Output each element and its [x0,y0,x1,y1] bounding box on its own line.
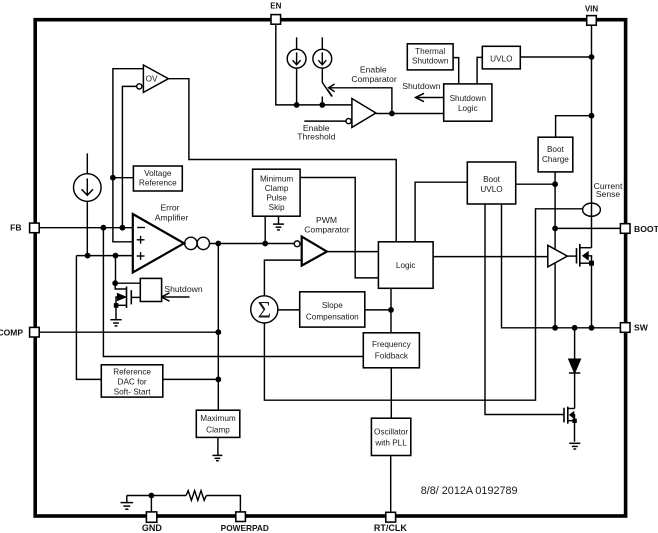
svg-text:Soft- Start: Soft- Start [114,388,152,397]
block minimum clamp pulse skip [253,169,301,216]
node SW source [589,325,595,331]
svg-text:Clamp: Clamp [265,184,289,193]
ground at GND pin node [121,503,134,510]
wire VIN rail [591,25,593,248]
svg-text:Comparator: Comparator [304,225,350,235]
wire logic output to gate driver [433,256,548,258]
wire Vref net OV top input to error amp noninverting input [113,69,143,242]
ground symbols [110,224,580,509]
diode D1 [569,359,580,373]
node EN rail I1 [294,102,300,108]
svg-text:Shutdown: Shutdown [412,56,449,65]
pin BOOT [620,224,630,234]
svg-text:Shutdown: Shutdown [450,94,487,103]
wire OV output routing to logic [168,79,396,242]
svg-text:Logic: Logic [458,104,478,113]
node error amp output [215,241,221,247]
wire COMP pin [39,331,218,333]
svg-text:BOOT: BOOT [634,224,658,234]
wire PWM comparator output to logic [327,251,379,253]
wire diode to low-side drain [574,373,576,409]
pin POWERPAD [236,512,246,522]
current source I2 [313,49,332,68]
wire sigma bottom to current sense [264,209,582,400]
wire boot UVLO down to SW rail [502,204,621,328]
wire frequency foldback to oscillator [390,368,392,418]
svg-text:Sense: Sense [596,189,621,199]
ground below low-side mosfet [569,443,580,449]
block logic [378,242,433,288]
pin FB [30,223,40,233]
wire minimum clamp to error amp output row [264,216,266,243]
svg-text:Comparator: Comparator [351,74,397,84]
switch control arrowhead [329,84,335,92]
wire BOOT node to BOOT pin [555,227,620,229]
svg-text:Amplifier: Amplifier [155,213,189,223]
pin SW [620,323,630,333]
svg-text:Reference: Reference [139,179,177,188]
wire resistor to POWERPAD [206,496,240,512]
pin EN [271,15,281,25]
svg-text:Shutdown: Shutdown [402,81,440,91]
node EN rail I2 [319,102,325,108]
wire reference DAC output to clamp node [163,378,219,380]
current sense sensor [583,203,601,216]
wire oscillator to RT/CLK pin [390,456,392,513]
wire enable comparator output to shutdown logic [376,113,444,115]
svg-text:RT/CLK: RT/CLK [374,523,407,533]
svg-text:UVLO: UVLO [490,54,512,63]
node COMP tap [215,329,221,335]
wire high-side source to SW [591,263,593,328]
node enable comparator output [389,111,395,117]
pin GND [146,512,156,522]
svg-text:COMP: COMP [0,327,23,337]
block thermal shutdown [407,44,453,70]
wire error amp output row [209,243,294,245]
wire boot charge to boot node [554,172,556,229]
wire sigma to PWM comparator lower input [264,260,301,296]
wire shutdown mosfet drain node to shutdown box [115,282,140,284]
op-amp PWM comparator [294,237,327,266]
transistor Q1 high-side mosfet [567,244,594,267]
op-amp U1 error amplifier [133,214,184,273]
wire EN pin to enable comparator rail [276,25,352,105]
resistor R1 [186,491,206,501]
wire SW to diode [574,328,576,359]
transistor Q3 shutdown mosfet [114,283,141,320]
block shutdown logic [444,84,492,121]
block UVLO [482,46,520,69]
wire VIN rail to boot charge [556,116,592,138]
svg-text:VIN: VIN [585,5,599,14]
node shutdown mosfet drain [112,280,118,286]
ground below maximum clamp box [212,455,222,460]
wire enable threshold input [304,120,346,122]
wire GND node to GND pin [150,496,152,512]
node VIN-UVLO [589,54,595,60]
wire boot UVLO down to low-side gate [485,204,564,415]
pin COMP [30,327,40,337]
wire current source I2 top stub [321,37,323,49]
svg-text:Threshold: Threshold [297,132,335,142]
svg-text:Boot: Boot [483,175,501,184]
wire UVLO to VIN rail [520,56,591,58]
wire thermal shutdown to shutdown logic [453,58,459,84]
block maximum clamp [196,410,240,437]
sigma summing node [251,296,278,323]
svg-text:Logic: Logic [396,261,416,270]
svg-text:Compensation: Compensation [306,312,359,321]
svg-text:UVLO: UVLO [480,185,502,194]
error amplifier gm output circles [185,237,210,249]
node SW diode [572,325,578,331]
svg-text:GND: GND [142,523,163,533]
svg-text:DAC for: DAC for [118,378,147,387]
transistor Q2 low-side mosfet [564,407,577,424]
wire minimum clamp output to logic [300,178,378,278]
current source I3 soft-start [74,174,102,202]
node SW driver [552,325,558,331]
wire logic to frequency foldback [390,288,392,333]
wire current source I3 to soft-start node [86,201,88,255]
svg-text:Boot: Boot [547,145,565,154]
node Vref tap [110,175,116,181]
op-amp OV comparator [137,65,169,92]
svg-text:Error: Error [160,203,179,213]
node slope comp tap [388,307,394,313]
wire FB pin to error amp inverting input [39,227,133,229]
shutdown output arrow line [416,97,444,99]
wire maximum clamp ground stub [217,437,219,455]
pin RT/CLK [386,512,396,522]
svg-text:Slope: Slope [322,301,343,310]
node minimum clamp tap [262,241,268,247]
pin VIN [587,16,597,26]
block reference DAC for soft-start [101,365,163,397]
wire enable comparator output to switch control [329,88,392,114]
wire switch bottom stub [321,97,323,105]
wire FB node down to frequency foldback [103,228,363,357]
node FB-foldback [101,225,107,231]
wire COMP vertical error amp output to maximum clamp [217,244,219,411]
svg-text:Reference: Reference [113,368,151,377]
node VIN-bootcharge [589,113,595,119]
svg-text:Voltage: Voltage [144,169,172,178]
wire current source I1 to EN rail [296,68,298,105]
node soft-start I3 [85,253,91,259]
svg-text:SW: SW [634,323,649,333]
wire driver bottom to SW [554,263,556,328]
svg-text:Oscillator: Oscillator [374,428,408,437]
svg-text:Σ: Σ [258,298,271,323]
block frequency foldback [363,333,419,368]
svg-text:Enable: Enable [360,64,387,74]
shutdown signal wire to shutdown box near error amp [161,296,190,298]
op-amp gate driver [548,245,568,267]
wire low-side source to ground [574,421,576,442]
wire boot rail to driver top [554,228,556,249]
switch S1 blade tick [327,89,332,96]
wire current source I1 top stub [296,37,298,49]
svg-text:Minimum: Minimum [260,174,293,183]
svg-text:Charge: Charge [542,155,569,164]
wire UVLO to shutdown logic [477,57,482,84]
switch S1 blade [322,83,331,97]
block shutdown latch box [140,278,161,301]
wire current source I3 top stub [86,153,88,173]
node BOOT rail [552,226,558,232]
wire boot UVLO right to boot node [516,183,555,185]
wire current source I2 to switch [321,68,323,83]
block voltage reference [133,166,182,191]
wire FB node up to OV bubble [122,86,136,227]
wire soft-start row to error amp plus input [76,255,132,257]
wire GND node row [127,495,186,497]
ground below shutdown mosfet [110,320,121,326]
node FB-OV [120,225,126,231]
node DAC output [215,377,221,383]
svg-text:with PLL: with PLL [374,438,407,447]
node boot UVLO tap [552,181,558,187]
shutdown arrowhead [416,93,425,101]
svg-text:Frequency: Frequency [372,340,412,349]
svg-text:OV: OV [146,75,158,84]
wire soft-start row to reference DAC [76,256,101,380]
wire minimum clamp ground stub [278,216,280,224]
wire Vref node to voltage reference box [113,177,133,179]
svg-text:Clamp: Clamp [206,425,230,434]
svg-text:FB: FB [10,223,21,233]
block slope compensation [300,292,365,327]
node soft-start mosfet [113,253,119,259]
wire GND ground stub [126,496,128,503]
node GND resistor [149,493,155,499]
shutdown box arrowhead [161,293,169,301]
svg-text:Foldback: Foldback [375,351,409,360]
svg-text:Thermal: Thermal [415,47,445,56]
svg-text:Maximum: Maximum [200,414,236,423]
block boot UVLO [467,162,515,204]
svg-text:POWERPAD: POWERPAD [221,523,269,533]
wire slope compensation output to logic bottom net [365,309,391,311]
op-amp enable comparator [346,99,376,128]
current source I1 [287,49,306,68]
svg-text:Pulse: Pulse [266,194,287,203]
svg-text:EN: EN [270,2,281,11]
svg-text:Shutdown: Shutdown [164,284,202,294]
svg-text:Skip: Skip [269,203,285,212]
block oscillator with PLL [371,418,410,455]
wire soft-start node to shutdown mosfet drain [115,256,117,284]
svg-text:PWM: PWM [316,215,337,225]
block boot charge [538,137,573,172]
svg-text:8/8/ 2012A 0192789: 8/8/ 2012A 0192789 [421,485,518,497]
ground below minimum clamp box [273,224,284,230]
wire slope compensation input from sigma [277,309,299,311]
wire boot UVLO left to logic [415,182,467,242]
